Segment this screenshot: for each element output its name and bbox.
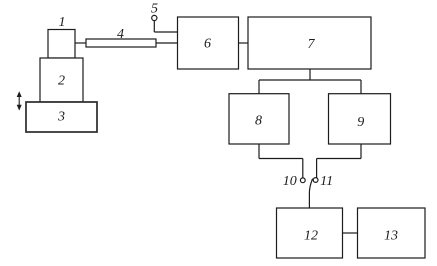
wire down to block9	[360, 80, 362, 94]
svg-text:6: 6	[204, 37, 211, 52]
block 7	[248, 17, 371, 69]
svg-text:12: 12	[304, 229, 318, 244]
wire down to contact10	[302, 159, 304, 178]
port circle 5	[152, 15, 157, 20]
block 3	[26, 102, 97, 132]
wire block6 to block7	[239, 42, 249, 44]
svg-text:11: 11	[320, 174, 333, 189]
wire block7 down	[309, 69, 311, 80]
block 1	[48, 30, 75, 59]
wire block9 to contact11 horizontal	[317, 158, 361, 160]
svg-text:1: 1	[59, 15, 66, 30]
wire splitter horizontal	[259, 79, 361, 81]
block 13	[358, 208, 426, 258]
block 2	[40, 58, 83, 102]
svg-text:10: 10	[283, 174, 297, 189]
wire tube4 to block6	[156, 42, 178, 44]
svg-text:5: 5	[151, 2, 158, 17]
svg-text:8: 8	[255, 114, 262, 129]
block 8	[229, 94, 289, 144]
contact circle 10	[300, 178, 305, 183]
svg-text:4: 4	[117, 27, 124, 42]
switch lever wire	[309, 179, 312, 208]
wire down to contact11	[316, 159, 318, 178]
wire block12 to block13	[343, 232, 358, 234]
wire block1 to tube4	[75, 42, 86, 44]
svg-text:13: 13	[384, 229, 398, 244]
svg-text:3: 3	[57, 110, 65, 125]
wire circle5 down	[153, 21, 155, 32]
wire circle5 to block6	[154, 31, 177, 33]
wire block9 down	[360, 144, 362, 159]
svg-text:9: 9	[357, 115, 364, 130]
block 9	[329, 94, 391, 144]
tube 4	[86, 39, 156, 47]
svg-text:2: 2	[58, 74, 65, 89]
block 12	[277, 208, 343, 258]
double-headed arrow	[17, 91, 22, 110]
block 6	[178, 17, 239, 69]
wire block8 to contact10 horizontal	[259, 158, 303, 160]
svg-text:7: 7	[308, 37, 316, 52]
contact circle 11	[313, 178, 318, 183]
wire block8 down	[258, 144, 260, 159]
wire down to block8	[258, 80, 260, 94]
